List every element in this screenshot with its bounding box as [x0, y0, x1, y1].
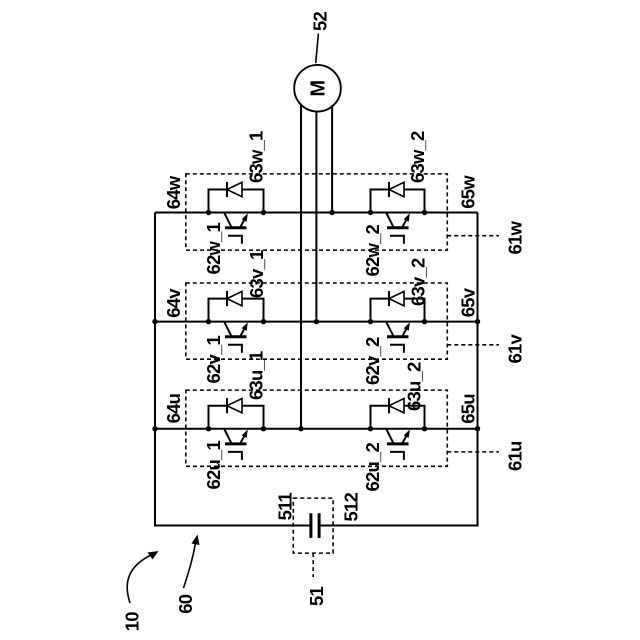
svg-text:65w: 65w — [458, 175, 479, 209]
diode 63u_1 cathode bar — [226, 398, 228, 413]
svg-text:61u: 61u — [505, 441, 526, 471]
node dot left bus / v row — [152, 319, 157, 324]
svg-text:52: 52 — [310, 12, 331, 31]
svg-text:63u_2: 63u_2 — [404, 362, 425, 411]
capacitor plate right — [318, 513, 321, 538]
diode 63v_2 cathode bar — [388, 291, 390, 306]
motor M circle — [294, 65, 341, 112]
IGBT 62w_2 base bar — [387, 226, 409, 229]
IGBT 62v_1 emitter arrowhead — [242, 322, 248, 330]
wire w-phase row — [155, 212, 478, 214]
IGBT 62u_1 base bar — [225, 442, 247, 445]
svg-text:61v: 61v — [505, 334, 526, 364]
IGBT 62w_2 collector diagonal — [387, 213, 394, 227]
wire motor phase u (left vertical) — [300, 105, 302, 429]
svg-text:62w_1: 62w_1 — [203, 222, 224, 274]
diode 63v_2 loop wire — [371, 299, 425, 322]
diode 63v_1 cathode bar — [226, 291, 228, 306]
node dot phase w junction — [329, 210, 334, 215]
svg-text:511: 511 — [275, 492, 296, 520]
svg-text:64w: 64w — [163, 175, 184, 209]
IGBT 62w_2 gate lead — [390, 236, 404, 244]
wire u-phase row — [155, 428, 478, 430]
diode 63u_2 loop wire — [371, 406, 425, 429]
svg-text:65v: 65v — [458, 287, 479, 317]
IGBT 62v_2 gate lead — [390, 345, 404, 353]
svg-text:62u_1: 62u_1 — [203, 441, 224, 490]
node dot right bus / u row — [475, 426, 480, 431]
IGBT 62w_1 emitter diagonal — [240, 217, 246, 228]
IGBT 62w_1 collector diagonal — [225, 213, 232, 227]
IGBT 62v_1 collector diagonal — [225, 322, 232, 336]
node dot left of 62w_2 — [368, 210, 373, 215]
diode 63u_2 triangle — [389, 399, 404, 413]
diode 63u_1 loop wire — [209, 406, 264, 429]
svg-text:M: M — [308, 81, 330, 97]
IGBT 62u_2 emitter arrowhead — [404, 430, 410, 438]
arrowhead for label 10 — [148, 551, 159, 560]
node dot left of 62w_1 — [206, 210, 211, 215]
capacitor 511/512 dashed box — [293, 498, 333, 553]
diode 63w_2 cathode bar — [388, 182, 390, 197]
IGBT 62u_2 collector diagonal — [387, 430, 394, 444]
svg-text:65u: 65u — [458, 394, 479, 424]
dashed leader line for label 51 — [312, 553, 314, 577]
IGBT 62v_2 emitter diagonal — [402, 326, 408, 337]
IGBT 62v_2 emitter arrowhead — [404, 322, 410, 330]
node dot left bus / u row — [152, 426, 157, 431]
svg-text:512: 512 — [341, 493, 362, 522]
svg-text:63w_1: 63w_1 — [246, 131, 267, 183]
IGBT 62u_2 base bar — [387, 442, 409, 445]
diode 63v_1 loop wire — [209, 299, 264, 322]
node dot right of 62w_2 — [422, 210, 427, 215]
svg-text:63v_1: 63v_1 — [246, 250, 267, 298]
IGBT 62v_1 emitter diagonal — [240, 326, 246, 337]
svg-text:62v_2: 62v_2 — [362, 337, 383, 385]
svg-text:64v: 64v — [163, 288, 184, 318]
svg-text:63u_1: 63u_1 — [246, 351, 267, 400]
node dot right of 62v_1 — [261, 319, 266, 324]
IGBT 62v_1 base bar — [225, 335, 247, 338]
IGBT 62u_1 emitter diagonal — [240, 433, 246, 444]
node dot right of 62v_2 — [422, 319, 427, 324]
IGBT 62v_2 base bar — [387, 335, 409, 338]
svg-text:62u_2: 62u_2 — [362, 443, 383, 492]
IGBT 62u_2 emitter diagonal — [402, 433, 408, 444]
svg-text:62v_1: 62v_1 — [203, 336, 224, 384]
node dot right bus / v row — [475, 319, 480, 324]
diode 63v_1 triangle — [227, 291, 242, 305]
IGBT 62w_1 gate lead — [228, 236, 242, 244]
diode 63w_1 triangle — [227, 182, 242, 196]
dashed module box 64u/65u — [186, 390, 448, 466]
dashed leader line for label 61u — [447, 451, 499, 453]
svg-text:61w: 61w — [505, 221, 526, 255]
IGBT 62u_1 collector diagonal — [225, 430, 232, 444]
IGBT 62w_2 emitter diagonal — [402, 217, 408, 228]
diode 63w_1 loop wire — [209, 190, 264, 213]
svg-text:63w_2: 63w_2 — [407, 131, 428, 183]
node dot left of 62v_2 — [368, 319, 373, 324]
dashed module box 64w/65w — [186, 174, 448, 250]
diode 63w_2 triangle — [389, 182, 404, 196]
diode 63w_1 cathode bar — [226, 182, 228, 197]
node dot left of 62u_1 — [206, 426, 211, 431]
diode 63u_2 cathode bar — [388, 398, 390, 413]
svg-text:60: 60 — [175, 594, 196, 613]
wire motor phase w (right vertical) — [331, 105, 333, 212]
dashed module box 64v/65v — [186, 283, 448, 359]
IGBT 62u_2 gate lead — [390, 452, 404, 460]
arrow leader for label 10 — [127, 555, 152, 604]
node dot left of 62v_1 — [206, 319, 211, 324]
node dot left of 62u_2 — [368, 426, 373, 431]
IGBT 62u_1 gate lead — [228, 452, 242, 460]
svg-text:62w_2: 62w_2 — [362, 224, 383, 276]
wire v-phase row — [155, 321, 478, 323]
dashed leader line for label 61v — [447, 344, 499, 346]
IGBT 62v_1 gate lead — [228, 345, 242, 353]
node dot phase u junction — [298, 426, 303, 431]
IGBT 62w_1 emitter arrowhead — [242, 213, 248, 221]
diode 63w_2 loop wire — [371, 190, 425, 213]
node dot phase v junction — [314, 319, 319, 324]
arrowhead for label 60 — [192, 535, 200, 546]
node dot right of 62u_2 — [422, 426, 427, 431]
IGBT 62w_1 base bar — [225, 226, 247, 229]
IGBT 62v_2 collector diagonal — [387, 322, 394, 336]
arrow leader for label 60 — [184, 543, 196, 588]
wire motor phase v (middle vertical) — [315, 111, 317, 322]
node dot right of 62u_1 — [261, 426, 266, 431]
svg-text:64u: 64u — [163, 393, 184, 423]
IGBT 62w_2 emitter arrowhead — [404, 213, 410, 221]
wire outer rectangle (top = w-phase rail handled separately) — [155, 213, 478, 526]
svg-text:63v_2: 63v_2 — [408, 258, 429, 306]
diode 63u_1 triangle — [227, 399, 242, 413]
svg-text:10: 10 — [122, 612, 143, 631]
svg-text:51: 51 — [306, 587, 327, 606]
dashed leader line for label 61w — [447, 235, 499, 237]
node dot right of 62w_1 — [261, 210, 266, 215]
IGBT 62u_1 emitter arrowhead — [242, 430, 248, 438]
leader line for label 52 — [316, 34, 319, 64]
diode 63v_2 triangle — [389, 291, 404, 305]
capacitor plate left — [309, 513, 312, 538]
